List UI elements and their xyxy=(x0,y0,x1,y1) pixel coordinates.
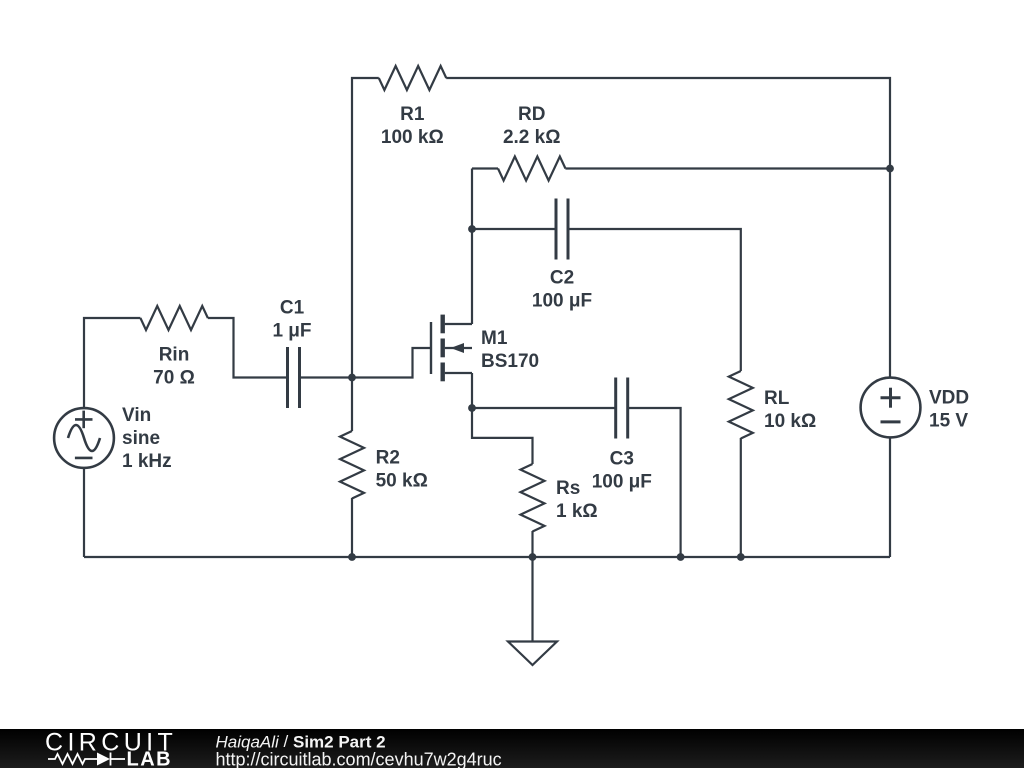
svg-text:1 kΩ: 1 kΩ xyxy=(556,501,598,522)
svg-text:http://circuitlab.com/cevhu7w2: http://circuitlab.com/cevhu7w2g4ruc xyxy=(216,750,502,768)
wire C2 row xyxy=(472,228,556,230)
svg-text:C3: C3 xyxy=(610,449,634,470)
wire Rin to C1 xyxy=(208,318,288,378)
wire C3 to bottom rail xyxy=(628,408,681,557)
wire drain vertical xyxy=(471,169,473,325)
wire Vin bottom lead xyxy=(83,468,85,557)
wire source row to C3 xyxy=(472,407,616,409)
svg-text:R1: R1 xyxy=(400,104,425,125)
svg-text:1 kHz: 1 kHz xyxy=(122,451,172,472)
svg-text:70 Ω: 70 Ω xyxy=(153,368,195,389)
svg-text:100 μF: 100 μF xyxy=(532,291,592,312)
svg-text:100 kΩ: 100 kΩ xyxy=(381,127,444,148)
wire RD to right rail xyxy=(565,167,890,169)
svg-text:RD: RD xyxy=(518,104,545,125)
svg-text:15 V: 15 V xyxy=(929,411,968,432)
footer bar xyxy=(0,729,1024,768)
svg-text:Rs: Rs xyxy=(556,478,580,499)
svg-text:RL: RL xyxy=(764,388,790,409)
wire ground lead xyxy=(531,557,533,641)
node gate/C1 junction xyxy=(348,374,356,382)
wire top rail to right xyxy=(446,78,890,378)
wire R2 bottom lead xyxy=(351,498,353,557)
transistor M1 BS170 xyxy=(431,315,472,382)
svg-text:Rin: Rin xyxy=(159,345,190,366)
svg-text:M1: M1 xyxy=(481,328,508,349)
svg-text:2.2 kΩ: 2.2 kΩ xyxy=(503,127,561,148)
wire C1 to gate xyxy=(300,348,431,378)
ground xyxy=(508,642,557,666)
wire RL bottom lead xyxy=(740,438,742,557)
wire C2 to RL xyxy=(568,229,741,371)
node Rs ground xyxy=(529,553,537,561)
node source/C3 xyxy=(468,404,476,412)
svg-text:BS170: BS170 xyxy=(481,351,539,372)
resistor RD xyxy=(472,167,498,169)
wire VDD bottom lead xyxy=(889,437,891,557)
wire source vertical xyxy=(471,373,473,408)
node drain/C2 xyxy=(468,225,476,233)
voltage source VDD xyxy=(861,378,921,438)
svg-text:LAB: LAB xyxy=(127,749,173,768)
capacitor C2 xyxy=(556,199,568,260)
svg-text:VDD: VDD xyxy=(929,388,969,409)
voltage source Vin xyxy=(54,408,114,468)
node RD vdd rail xyxy=(886,165,894,173)
svg-text:HaiqaAli / Sim2 Part 2: HaiqaAli / Sim2 Part 2 xyxy=(216,732,386,751)
resistor R2 xyxy=(340,431,364,498)
svg-text:50 kΩ: 50 kΩ xyxy=(376,471,428,492)
svg-text:C2: C2 xyxy=(550,268,574,289)
node R2 bottom rail xyxy=(348,553,356,561)
wire bottom rail xyxy=(84,556,890,558)
svg-text:sine: sine xyxy=(122,428,160,449)
node C3 rail xyxy=(677,553,685,561)
svg-text:Vin: Vin xyxy=(122,405,151,426)
resistor Rs xyxy=(521,464,545,531)
resistor R1 xyxy=(379,66,446,90)
svg-text:R2: R2 xyxy=(376,448,400,469)
capacitor C1 xyxy=(288,347,300,408)
wire source to Rs xyxy=(472,408,533,464)
resistor Rin xyxy=(140,306,207,330)
svg-text:10 kΩ: 10 kΩ xyxy=(764,411,816,432)
svg-text:C1: C1 xyxy=(280,298,305,319)
node RL rail xyxy=(737,553,745,561)
resistor RL xyxy=(729,371,753,438)
wire Rs bottom lead xyxy=(531,531,533,557)
svg-text:1 μF: 1 μF xyxy=(272,321,311,342)
capacitor C3 xyxy=(616,378,628,439)
wire top left vertical xyxy=(352,78,379,431)
wire left branch to Rin xyxy=(84,318,140,408)
svg-text:100 μF: 100 μF xyxy=(592,472,652,493)
